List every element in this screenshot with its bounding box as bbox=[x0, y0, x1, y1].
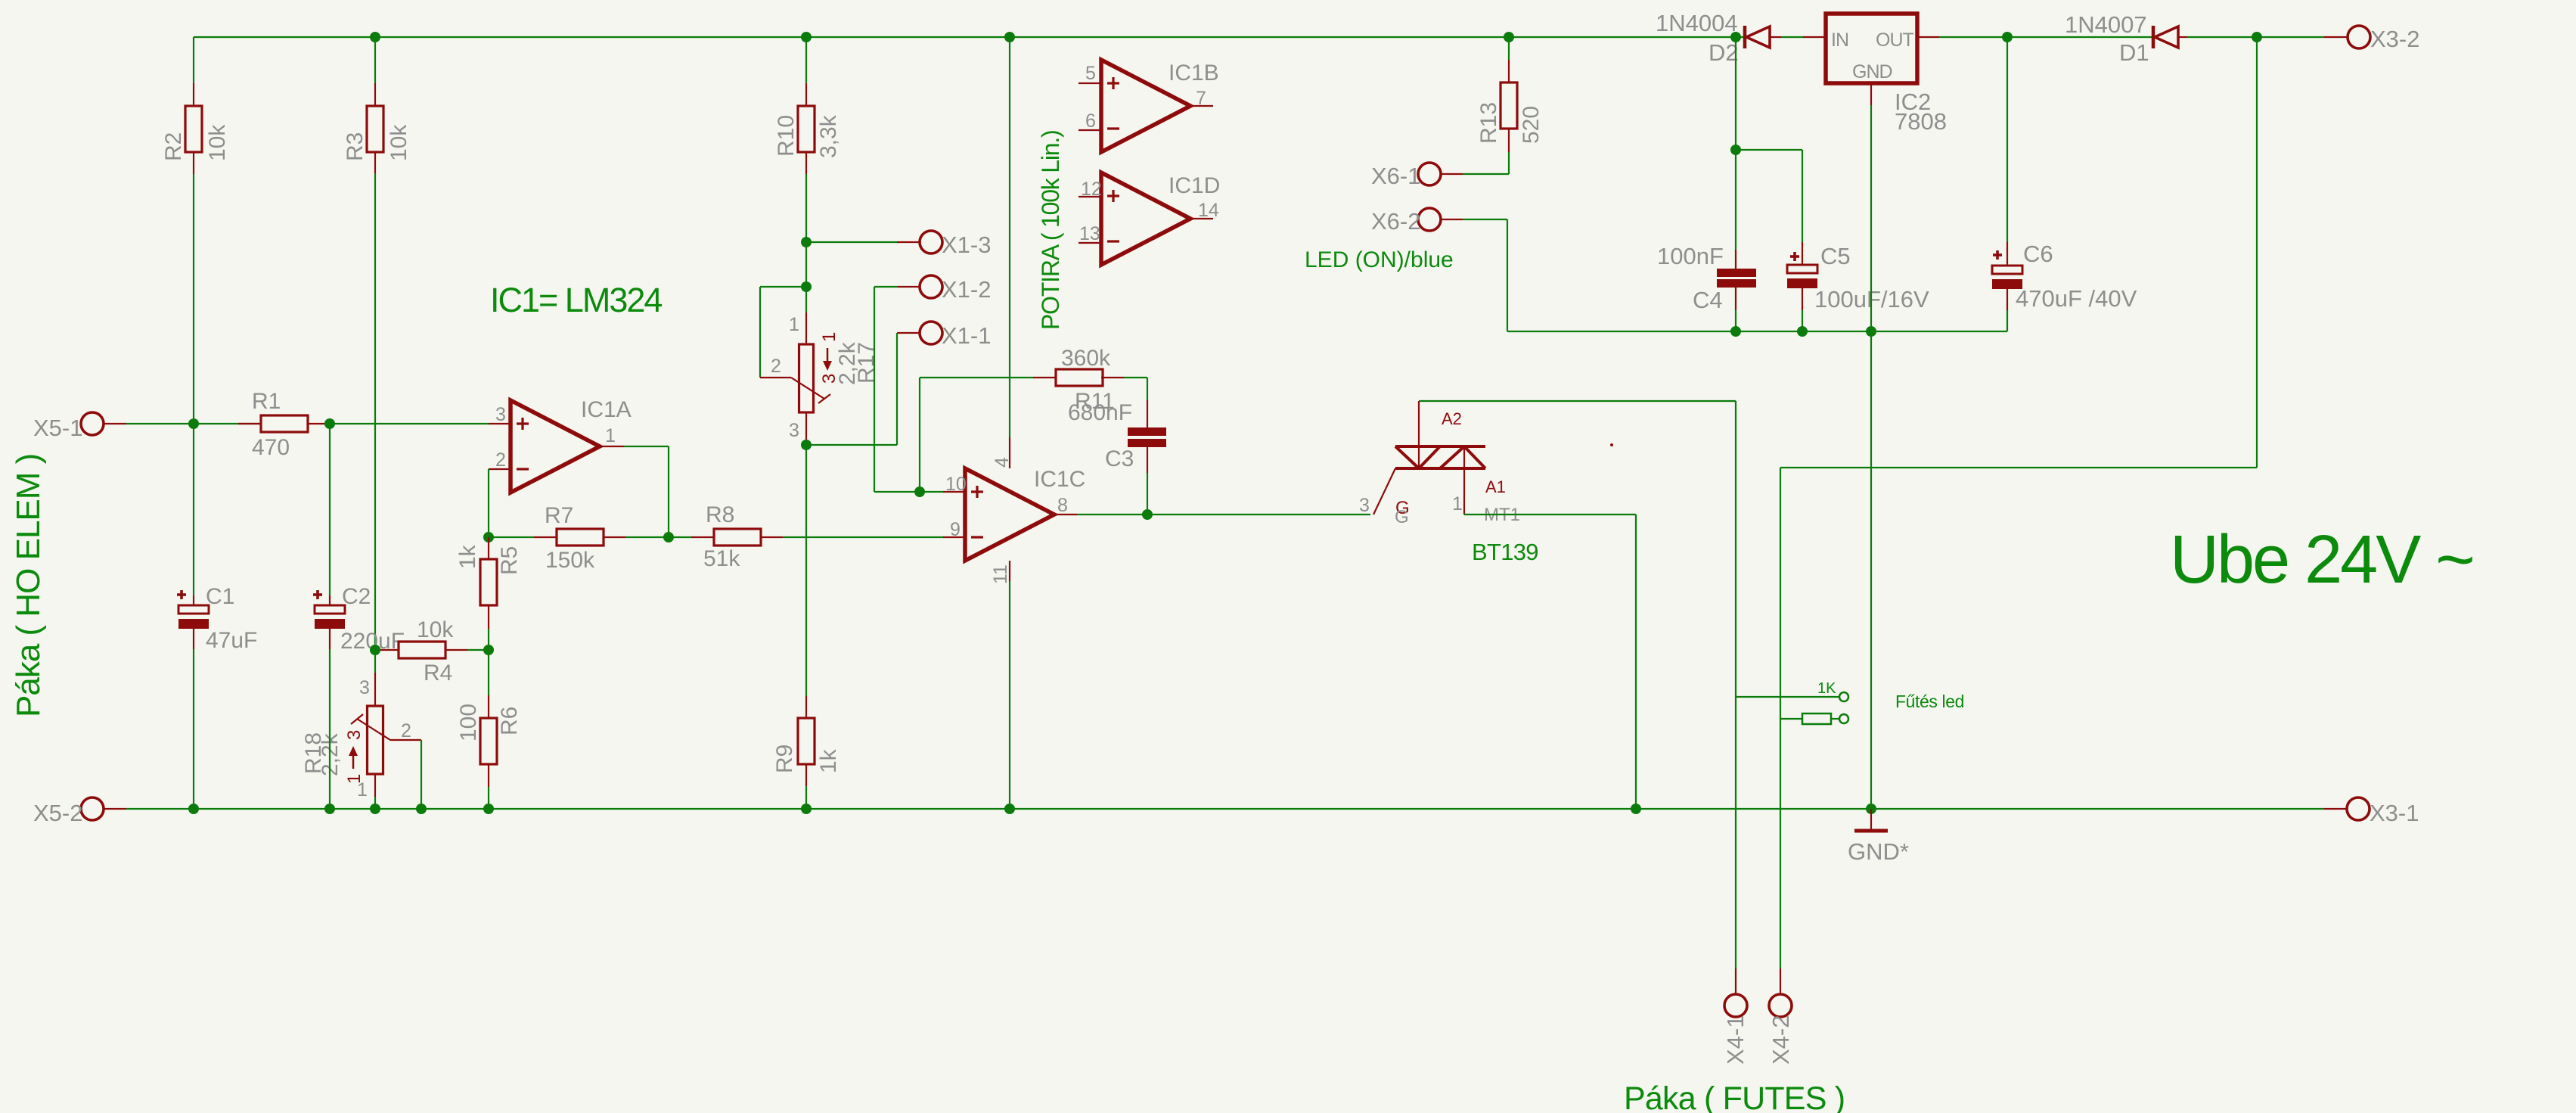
svg-text:10k: 10k bbox=[205, 124, 230, 161]
svg-text:X5-2: X5-2 bbox=[33, 800, 82, 826]
svg-text:1: 1 bbox=[344, 774, 365, 784]
svg-text:13: 13 bbox=[1079, 223, 1100, 244]
terminal X3-2 bbox=[2324, 36, 2348, 38]
node ground junction R9 bbox=[801, 804, 812, 814]
wire +in node up bbox=[919, 378, 920, 492]
terminal X4-2 bbox=[1780, 968, 1781, 994]
svg-text:1: 1 bbox=[789, 314, 799, 335]
wire R10 column bbox=[805, 37, 807, 83]
wire heater return from D1 node bbox=[2256, 37, 2258, 468]
svg-text:D2: D2 bbox=[1709, 39, 1739, 66]
wire X1-1 net bbox=[898, 332, 920, 334]
svg-text:POTIRA ( 100k Lin.): POTIRA ( 100k Lin.) bbox=[1037, 130, 1064, 330]
wire R17 pin3 bbox=[805, 412, 807, 445]
svg-text:100nF: 100nF bbox=[1657, 243, 1724, 269]
svg-text:R6: R6 bbox=[497, 707, 522, 735]
wire top bus right of IC2 bbox=[1939, 36, 2153, 38]
node top-bus junction IC1 supply bbox=[1004, 32, 1015, 42]
wire C5 link bbox=[1736, 149, 1802, 151]
pin IC1A -in stub bbox=[489, 468, 511, 470]
wire C2 to ground bus bbox=[329, 649, 331, 809]
wire +in node to IC1C bbox=[920, 491, 943, 493]
svg-text:IN: IN bbox=[1831, 30, 1848, 51]
svg-text:680nF: 680nF bbox=[1068, 400, 1132, 425]
resistor R9 bbox=[805, 696, 807, 718]
svg-text:5: 5 bbox=[1085, 63, 1096, 84]
svg-text:X1-3: X1-3 bbox=[942, 232, 991, 258]
pin triac A2 bbox=[1418, 401, 1420, 468]
pin IC2 OUT stub bbox=[1917, 36, 1939, 38]
wire D1 to X3-2 bbox=[2187, 36, 2324, 38]
svg-text:51k: 51k bbox=[703, 546, 740, 571]
node ground junction R18 pin1 bbox=[370, 804, 380, 814]
svg-text:470uF /40V: 470uF /40V bbox=[2016, 285, 2137, 312]
svg-text:3,3k: 3,3k bbox=[816, 114, 841, 158]
wire R3 column bbox=[374, 37, 376, 83]
svg-text:360k: 360k bbox=[1061, 346, 1111, 371]
wire IC1C output to triac gate bbox=[1077, 514, 1370, 515]
triac Q1 BT139 bbox=[1395, 445, 1485, 448]
node junction IC1C +in bbox=[914, 487, 925, 497]
svg-text:Páka ( FUTES ): Páka ( FUTES ) bbox=[1624, 1080, 1845, 1113]
diode D1 1N4007 bbox=[2152, 26, 2155, 48]
resistor R1 bbox=[238, 423, 261, 424]
svg-text:1: 1 bbox=[819, 332, 840, 342]
resistor 1K heater led series bbox=[1781, 718, 1802, 720]
svg-text:6: 6 bbox=[1085, 110, 1096, 132]
svg-text:Páka ( HO ELEM ): Páka ( HO ELEM ) bbox=[10, 454, 47, 717]
node ground junction R18 wiper bbox=[416, 804, 427, 814]
wire C2 column bbox=[329, 424, 331, 595]
trimmer R18 bbox=[368, 706, 383, 774]
svg-text:X4-2: X4-2 bbox=[1768, 1015, 1794, 1065]
capacitor C2 bbox=[329, 595, 331, 605]
terminal X6-2 bbox=[1418, 208, 1441, 231]
terminal X1-3 bbox=[897, 241, 920, 243]
svg-text:X6-1: X6-1 bbox=[1371, 163, 1420, 189]
pin IC1B +in stub bbox=[1079, 82, 1101, 84]
pin IC1B -in stub bbox=[1079, 129, 1101, 131]
pin IC2 GND stub bbox=[1870, 83, 1872, 105]
node junction cap rail C4 bbox=[1730, 326, 1741, 337]
pad LED cathode bbox=[1839, 714, 1848, 723]
svg-text:1N4004: 1N4004 bbox=[1656, 10, 1738, 36]
wire R2 column bbox=[193, 37, 194, 83]
resistor R2 bbox=[185, 106, 202, 152]
svg-text:X6-2: X6-2 bbox=[1371, 208, 1420, 235]
pin IC1D -in stub bbox=[1079, 242, 1101, 244]
svg-text:1k: 1k bbox=[455, 544, 480, 569]
node ground junction R6 bbox=[483, 804, 494, 814]
svg-text:GND*: GND* bbox=[1848, 838, 1909, 865]
wire X6-1 to R13 bbox=[1440, 173, 1463, 175]
node junction X1-3 tap bbox=[801, 237, 812, 247]
wire R8 to IC1C -in bbox=[783, 536, 943, 538]
svg-text:7808: 7808 bbox=[1895, 108, 1947, 135]
node junction R4/R5/R6 bbox=[483, 645, 494, 655]
diode D2 1N4004 bbox=[1743, 26, 1747, 48]
node ground junction C2 bbox=[324, 804, 335, 814]
svg-text:3: 3 bbox=[495, 404, 506, 425]
wire C6 column bbox=[2006, 37, 2008, 242]
svg-text:14: 14 bbox=[1198, 200, 1219, 221]
pin IC1A output stub bbox=[600, 446, 624, 447]
resistor R5 bbox=[488, 537, 489, 559]
svg-text:2: 2 bbox=[771, 356, 781, 377]
op-amp IC1A bbox=[511, 400, 600, 493]
wire triac A2 to heater node bbox=[1419, 400, 1736, 402]
svg-text:X1-2: X1-2 bbox=[942, 276, 991, 303]
svg-text:2: 2 bbox=[401, 720, 411, 741]
svg-text:1: 1 bbox=[605, 425, 616, 446]
node junction C3 / output bbox=[1142, 509, 1153, 520]
wire IC1 supply pin4 column bbox=[1009, 37, 1010, 437]
resistor R4 bbox=[376, 649, 399, 651]
svg-text:1k: 1k bbox=[816, 748, 841, 773]
wire capacitor ground rail bbox=[1736, 331, 2007, 332]
svg-text:R1: R1 bbox=[252, 389, 281, 414]
stray mark bbox=[1610, 443, 1613, 446]
svg-text:IC1A: IC1A bbox=[581, 397, 632, 422]
svg-text:GND: GND bbox=[1852, 61, 1892, 82]
svg-text:Fűtés led: Fűtés led bbox=[1895, 692, 1964, 711]
terminal X1-1 bbox=[920, 322, 942, 344]
wire heater LED tap upper bbox=[1736, 696, 1839, 698]
terminal X3-1 bbox=[2324, 808, 2347, 810]
svg-text:BT139: BT139 bbox=[1472, 539, 1538, 565]
wire R1 to IC1A +in bbox=[330, 423, 489, 424]
svg-text:10k: 10k bbox=[386, 124, 411, 161]
svg-text:OUT: OUT bbox=[1876, 30, 1914, 51]
resistor R6 bbox=[488, 695, 489, 718]
wire R17 wiper loop bbox=[760, 286, 806, 288]
svg-text:470: 470 bbox=[252, 435, 290, 460]
capacitor C4 bbox=[1735, 250, 1736, 269]
svg-text:LED (ON)/blue: LED (ON)/blue bbox=[1305, 247, 1454, 272]
node ground junction IC1 pin11 bbox=[1004, 804, 1015, 814]
resistor R11 bbox=[1033, 377, 1056, 378]
svg-text:C4: C4 bbox=[1693, 287, 1723, 313]
svg-text:IC1C: IC1C bbox=[1034, 467, 1085, 492]
op-amp IC1D bbox=[1101, 173, 1190, 265]
svg-text:C6: C6 bbox=[2023, 241, 2053, 267]
pin IC1C pin11 bbox=[1009, 561, 1010, 581]
wire bottom ground bus bbox=[104, 808, 126, 810]
terminal X6-1 bbox=[1418, 163, 1441, 185]
wire IC1 pin11 to ground bus bbox=[1009, 581, 1010, 809]
pin triac A1 bbox=[1463, 446, 1465, 515]
svg-text:3: 3 bbox=[359, 677, 370, 698]
svg-text:A1: A1 bbox=[1485, 477, 1506, 496]
pin IC1B output stub bbox=[1190, 105, 1213, 107]
wire X6-2 to capacitor rail bbox=[1440, 219, 1463, 220]
wire C4 column bbox=[1735, 37, 1736, 250]
svg-text:1N4007: 1N4007 bbox=[2065, 11, 2147, 38]
svg-text:100: 100 bbox=[456, 704, 481, 741]
terminal X1-2 bbox=[920, 275, 942, 298]
node junction cap rail GND column bbox=[1866, 326, 1876, 337]
svg-text:Ube 24V ~: Ube 24V ~ bbox=[2170, 522, 2473, 598]
svg-text:R7: R7 bbox=[545, 503, 573, 528]
svg-text:A2: A2 bbox=[1442, 409, 1462, 428]
wire IC1A -in down to R5/R7 node bbox=[488, 469, 489, 537]
svg-text:D1: D1 bbox=[2119, 39, 2149, 66]
svg-text:X3-1: X3-1 bbox=[2370, 800, 2419, 826]
svg-text:R3: R3 bbox=[343, 132, 368, 161]
resistor R8 bbox=[669, 536, 691, 538]
resistor R7 bbox=[489, 536, 534, 538]
svg-text:IC1= LM324: IC1= LM324 bbox=[490, 281, 662, 319]
node junction R5/R7/IC1A- bbox=[483, 532, 494, 543]
svg-text:C2: C2 bbox=[342, 584, 371, 609]
svg-text:150k: 150k bbox=[545, 548, 595, 573]
wire R18 pin1 to ground bus bbox=[374, 774, 376, 797]
node ground junction IC2 GND bbox=[1866, 804, 1876, 814]
resistor R3 bbox=[367, 106, 383, 152]
pin IC1D output stub bbox=[1190, 218, 1213, 219]
trimmer R17 bbox=[805, 312, 807, 344]
svg-text:2: 2 bbox=[495, 449, 506, 471]
node junction cap rail C5 bbox=[1797, 326, 1808, 337]
svg-text:X1-1: X1-1 bbox=[942, 322, 991, 349]
terminal X5-2 bbox=[81, 797, 104, 820]
pin triac gate bbox=[1373, 468, 1395, 515]
svg-text:3: 3 bbox=[1359, 495, 1370, 516]
node ground junction C1 bbox=[188, 804, 199, 814]
capacitor C5 bbox=[1802, 242, 1803, 265]
svg-text:C3: C3 bbox=[1105, 446, 1134, 471]
node junction R17 pin1 / wiper loop bbox=[801, 281, 812, 292]
terminal X4-1 bbox=[1735, 968, 1736, 994]
svg-text:3: 3 bbox=[344, 730, 365, 740]
capacitor C6 bbox=[2006, 242, 2008, 266]
node top-bus junction R13 bbox=[1504, 32, 1514, 42]
node junction C5 tap bbox=[1730, 145, 1741, 155]
node junction IC2 OUT / C6 bbox=[2002, 32, 2013, 42]
svg-text:X5-1: X5-1 bbox=[33, 415, 82, 441]
pin IC1C +in stub bbox=[943, 491, 965, 493]
svg-text:G: G bbox=[1395, 507, 1409, 527]
node top-bus junction D2/C4 bbox=[1730, 32, 1741, 42]
node junction R1 out / C2 bbox=[324, 418, 335, 429]
wire R18 wiper to ground bus bbox=[421, 740, 422, 809]
svg-text:10: 10 bbox=[945, 474, 967, 495]
svg-text:R9: R9 bbox=[772, 745, 797, 773]
pin R17 wiper bbox=[760, 377, 791, 378]
svg-text:1K: 1K bbox=[1817, 680, 1836, 697]
svg-text:8: 8 bbox=[1057, 495, 1068, 516]
pin IC1A +in stub bbox=[489, 423, 511, 424]
node junction R17 pin3 / X1-1 / R9 bbox=[801, 440, 812, 450]
wire R17 node down to R9 bbox=[805, 445, 807, 696]
wire triac A1 down to ground bbox=[1464, 514, 1636, 515]
svg-text:47uF: 47uF bbox=[206, 628, 257, 653]
wire R3 to R18 bbox=[374, 650, 376, 673]
node junction X5-1/R2 bbox=[188, 418, 199, 429]
node junction R18 pin3 / R4 bbox=[370, 645, 380, 655]
ground GND* bbox=[1870, 809, 1872, 829]
svg-text:R2: R2 bbox=[161, 132, 186, 161]
svg-text:R4: R4 bbox=[424, 661, 452, 686]
svg-text:C5: C5 bbox=[1820, 243, 1851, 269]
wire R13 column bbox=[1508, 37, 1510, 60]
node top-bus junction R3 bbox=[370, 32, 380, 42]
node top-bus junction R10 bbox=[801, 32, 812, 42]
svg-text:C1: C1 bbox=[206, 584, 234, 609]
op-amp IC1C bbox=[965, 468, 1054, 561]
wire X5-1 to R1 bbox=[104, 423, 126, 424]
svg-text:10k: 10k bbox=[417, 617, 454, 642]
svg-text:X3-2: X3-2 bbox=[2370, 26, 2419, 52]
wire C1 to ground bus bbox=[193, 649, 194, 809]
resistor R13 bbox=[1501, 82, 1517, 129]
svg-text:1: 1 bbox=[1452, 493, 1463, 515]
wire X1-3 net bbox=[806, 241, 897, 243]
terminal X5-1 bbox=[81, 412, 104, 435]
wire X1-2 net bbox=[898, 286, 920, 288]
wire IC2 GND column bbox=[1870, 105, 1872, 809]
capacitor C3 bbox=[1147, 378, 1148, 400]
node ground junction triac A1 bbox=[1631, 804, 1641, 814]
svg-text:X4-1: X4-1 bbox=[1722, 1015, 1749, 1065]
pin IC1C output stub bbox=[1054, 514, 1077, 515]
resistor R10 bbox=[798, 106, 815, 152]
pin IC1C pin4 bbox=[1009, 437, 1010, 468]
wire IC1A output to feedback node bbox=[624, 446, 669, 447]
pin IC1D +in stub bbox=[1079, 196, 1101, 197]
pin IC1C -in stub bbox=[943, 536, 965, 538]
svg-text:R5: R5 bbox=[497, 546, 522, 575]
node junction D1 / heater feed bbox=[2252, 32, 2262, 42]
capacitor C1 bbox=[193, 595, 194, 605]
svg-text:R10: R10 bbox=[774, 115, 799, 157]
op-amp IC1B bbox=[1101, 60, 1190, 152]
svg-text:R8: R8 bbox=[706, 502, 734, 527]
svg-text:11: 11 bbox=[990, 564, 1011, 584]
node junction IC1A out / R7 / R8 bbox=[663, 532, 674, 543]
svg-text:R13: R13 bbox=[1476, 102, 1501, 144]
svg-text:IC1D: IC1D bbox=[1169, 173, 1220, 198]
pad LED anode bbox=[1839, 692, 1848, 701]
wire top supply bus bbox=[194, 36, 1744, 38]
voltage regulator IC2 7808 bbox=[1826, 14, 1917, 83]
svg-text:3: 3 bbox=[789, 420, 799, 441]
svg-text:IC1B: IC1B bbox=[1169, 61, 1219, 85]
svg-text:520: 520 bbox=[1519, 106, 1544, 144]
svg-text:9: 9 bbox=[950, 519, 961, 540]
